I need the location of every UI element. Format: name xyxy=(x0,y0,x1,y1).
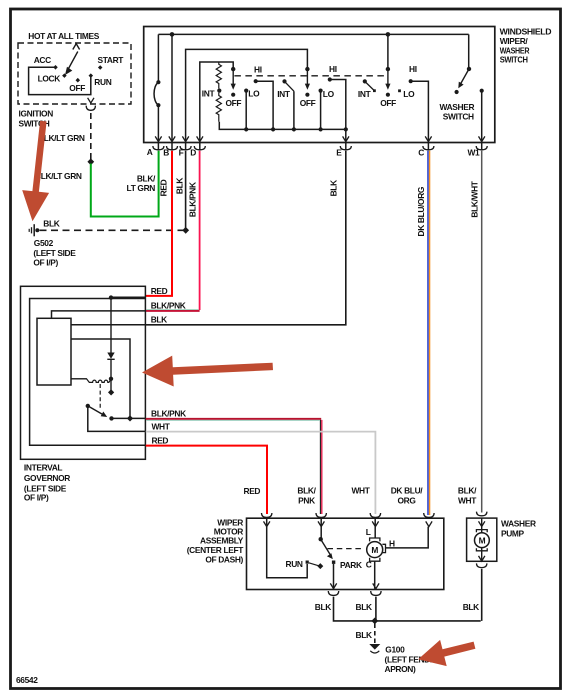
svg-text:BLK: BLK xyxy=(463,602,479,612)
relay upper contact xyxy=(110,379,112,391)
svg-text:G502: G502 xyxy=(34,238,54,248)
gang3 LO contact xyxy=(398,89,401,92)
svg-text:G100: G100 xyxy=(385,645,405,655)
gang3 HI contact and wire to pin C xyxy=(409,79,413,83)
washer pump box xyxy=(467,518,497,561)
svg-text:C: C xyxy=(418,147,424,157)
svg-text:OF I/P): OF I/P) xyxy=(24,493,49,503)
svg-text:BLK/PNK: BLK/PNK xyxy=(151,409,186,419)
pin wire stubs through connectors xyxy=(158,143,481,151)
gang2 INT contact and wire xyxy=(282,79,286,83)
wire component to relay contact xyxy=(71,339,130,418)
svg-text:INTERVAL: INTERVAL xyxy=(24,463,63,473)
relay contact to output xyxy=(109,416,113,420)
svg-text:PNK: PNK xyxy=(298,495,315,505)
gang1 pivot xyxy=(231,67,235,71)
svg-text:RED: RED xyxy=(158,179,168,196)
wire BLK junction to washer pump xyxy=(373,620,481,622)
svg-text:GOVERNOR: GOVERNOR xyxy=(24,473,70,483)
contact START xyxy=(98,65,103,70)
svg-text:OFF: OFF xyxy=(69,83,85,93)
svg-text:LT GRN: LT GRN xyxy=(127,183,156,193)
contact OFF xyxy=(76,78,81,83)
wire pin D to gang1 xyxy=(200,62,233,141)
wire motor H to DK BLU/ORG pin xyxy=(386,527,429,548)
gang3 arm xyxy=(387,70,389,85)
motor top pin arrows xyxy=(264,521,433,526)
wire BLK washer pump to junction xyxy=(481,569,483,621)
junction dot gang3 feed xyxy=(386,32,391,37)
wiper motor box xyxy=(247,518,444,589)
svg-text:DK BLU/ORG: DK BLU/ORG xyxy=(416,187,426,237)
dashed motor link xyxy=(328,548,364,550)
pin arrows at box bottom xyxy=(155,136,485,141)
svg-text:LOCK: LOCK xyxy=(38,74,61,84)
internal bus to pin E xyxy=(219,122,345,130)
svg-text:SWITCH: SWITCH xyxy=(443,112,474,122)
wire DK BLU/ORG pin C to wiper motor xyxy=(427,151,429,515)
wire BLK/PNK inside governor xyxy=(52,311,146,318)
svg-text:HI: HI xyxy=(329,64,337,74)
svg-text:LO: LO xyxy=(403,89,415,99)
diode D1 xyxy=(110,298,112,353)
gang1 resistor lower xyxy=(216,93,221,122)
bus wire B xyxy=(158,33,468,35)
svg-text:BLK/WHT: BLK/WHT xyxy=(470,180,480,217)
wire RED governor to motor xyxy=(146,446,267,514)
wire ACC to RUN xyxy=(29,67,91,94)
washer pump motor M2 xyxy=(475,533,490,548)
gang3 feed xyxy=(387,34,389,67)
washer pump wire bottom xyxy=(481,547,483,561)
svg-text:LO: LO xyxy=(323,89,335,99)
washer pump top arrow xyxy=(479,521,485,526)
svg-text:PARK: PARK xyxy=(340,560,362,570)
wire BLK pin E to governor xyxy=(146,151,346,325)
wire park contact to bottom xyxy=(333,564,335,589)
svg-text:LO: LO xyxy=(248,89,260,99)
svg-text:BLK/: BLK/ xyxy=(297,486,316,496)
wire BLK/PNK pin D to governor xyxy=(199,151,201,310)
svg-text:WHT: WHT xyxy=(458,495,477,505)
ignition switch arm xyxy=(68,52,78,70)
ground G100 symbol xyxy=(369,644,380,650)
svg-text:RED: RED xyxy=(152,436,169,446)
washer switch output contact and wire to pin W1 xyxy=(480,89,484,93)
svg-text:L: L xyxy=(366,527,371,537)
svg-text:RUN: RUN xyxy=(286,559,303,569)
svg-text:OF DASH): OF DASH) xyxy=(205,554,243,564)
park switch pivot xyxy=(319,537,323,541)
washer switch pivot xyxy=(467,67,471,71)
svg-text:A: A xyxy=(147,147,153,157)
svg-text:BLK: BLK xyxy=(315,602,331,612)
wire BLK pin F to G502 xyxy=(185,151,187,231)
washer pump cup top xyxy=(477,512,487,516)
washer pump brackets xyxy=(476,530,487,533)
svg-text:66542: 66542 xyxy=(16,675,38,685)
svg-text:BLK/PNK: BLK/PNK xyxy=(188,182,198,217)
gang2 HI contact and wire to pin E xyxy=(328,77,332,81)
wire dashed BLK to G502 xyxy=(40,229,186,231)
governor outer box xyxy=(21,286,146,459)
wire WHT governor to motor xyxy=(146,432,376,514)
svg-text:WHT: WHT xyxy=(351,486,370,496)
svg-text:ACC: ACC xyxy=(34,55,51,65)
connector cup ignition output xyxy=(86,106,95,111)
ignition switch dashed box xyxy=(18,43,131,104)
svg-text:INT: INT xyxy=(358,89,372,99)
gang2 pivot xyxy=(305,67,309,71)
ground G502 symbol xyxy=(35,228,39,232)
washer pump wire top xyxy=(481,518,483,533)
svg-text:BLK: BLK xyxy=(356,602,372,612)
washer pump cup bottom xyxy=(477,563,487,567)
svg-text:RED: RED xyxy=(244,486,261,496)
svg-text:IGNITION: IGNITION xyxy=(19,108,54,118)
svg-text:W1: W1 xyxy=(468,147,481,157)
gang2 arm xyxy=(306,70,308,85)
svg-text:H: H xyxy=(389,538,395,548)
svg-text:APRON): APRON) xyxy=(385,664,416,674)
svg-text:SWITCH: SWITCH xyxy=(500,55,528,65)
windshield wiper washer switch box xyxy=(144,27,495,143)
gang2 LO contact and wire xyxy=(319,89,323,93)
wire RUN output with arrow xyxy=(88,98,94,103)
red arrow 1 xyxy=(22,121,49,222)
svg-text:M: M xyxy=(479,536,486,546)
junction BLK ground xyxy=(182,227,189,234)
gang1 OFF contact xyxy=(231,93,235,97)
wire RED inside governor xyxy=(111,296,146,298)
park contact xyxy=(332,561,335,564)
wire BLK/PNK pin to park switch pivot xyxy=(320,519,322,539)
governor inner box xyxy=(30,299,146,446)
wire WHT pin to motor L xyxy=(374,519,376,538)
pin connector cups xyxy=(153,146,487,150)
wire dashed BLK/LT GRN from ignition xyxy=(90,113,92,162)
relay switch arm xyxy=(88,406,103,415)
svg-text:BLK: BLK xyxy=(329,180,339,196)
svg-text:INT: INT xyxy=(202,89,216,99)
svg-text:WASHER: WASHER xyxy=(501,519,536,529)
motor bottom connector cups xyxy=(328,591,381,595)
dashed relay link xyxy=(99,384,101,410)
washer switch feed xyxy=(468,34,470,67)
svg-text:ORG: ORG xyxy=(397,495,415,505)
wire pin F to gang2 xyxy=(186,49,308,141)
washer switch arm xyxy=(461,69,470,84)
motor bottom pin arrows xyxy=(330,583,379,588)
svg-text:OFF: OFF xyxy=(380,98,396,108)
governor component box xyxy=(37,318,71,385)
motor top connector cups xyxy=(262,513,435,517)
gang1 resistor upper xyxy=(216,62,221,88)
gang1 arm xyxy=(232,70,234,85)
svg-text:M: M xyxy=(371,545,378,555)
svg-text:START: START xyxy=(98,55,125,65)
wire BLK/WHT pin W1 to washer pump xyxy=(481,151,483,513)
junction G100 xyxy=(371,618,378,625)
gang2 OFF contact xyxy=(305,93,309,97)
wire pin A with breaker xyxy=(157,34,159,82)
svg-text:BLK: BLK xyxy=(174,178,184,194)
junction dot B xyxy=(170,32,175,37)
dashed wire to G100 xyxy=(374,624,376,644)
wire BLK park to junction xyxy=(334,597,374,621)
contact RUN xyxy=(306,561,309,564)
red arrow 2 xyxy=(142,356,273,387)
svg-text:WASHER: WASHER xyxy=(440,102,475,112)
wire BLK C pin down xyxy=(375,597,377,621)
svg-text:RUN: RUN xyxy=(94,77,111,87)
gang1 HI contact and wire xyxy=(254,79,258,83)
svg-text:HOT AT ALL TIMES: HOT AT ALL TIMES xyxy=(28,31,99,41)
gang3 pivot xyxy=(386,67,390,71)
motor M1 circle xyxy=(367,542,383,558)
svg-text:BLK: BLK xyxy=(356,630,372,640)
contact ACC xyxy=(53,65,58,70)
svg-text:OFF: OFF xyxy=(226,98,242,108)
svg-text:WINDSHIELD: WINDSHIELD xyxy=(500,27,552,37)
wire RED pin to RUN contact xyxy=(267,519,308,578)
svg-text:OF I/P): OF I/P) xyxy=(33,257,58,267)
wire BLK/LT GRN green to pin A xyxy=(91,151,159,217)
park switch arm xyxy=(321,539,331,555)
junction ignition green wire xyxy=(87,158,94,165)
svg-text:OFF: OFF xyxy=(300,98,316,108)
svg-text:B: B xyxy=(163,147,169,157)
svg-text:BLK/LT GRN: BLK/LT GRN xyxy=(35,171,82,181)
svg-text:HI: HI xyxy=(254,64,262,74)
contact LOCK xyxy=(62,73,67,78)
ignition feed terminal arrow xyxy=(73,44,80,50)
gang1 INT contact xyxy=(217,89,221,93)
red arrow 3 xyxy=(418,640,475,666)
svg-text:D: D xyxy=(190,147,196,157)
svg-text:PUMP: PUMP xyxy=(501,529,525,539)
svg-text:BLK/PNK: BLK/PNK xyxy=(151,301,186,311)
wire pin B vertical xyxy=(171,34,173,141)
svg-text:WHT: WHT xyxy=(152,422,171,432)
svg-text:INT: INT xyxy=(277,89,291,99)
run rest contact xyxy=(309,563,319,566)
svg-text:DK BLU/: DK BLU/ xyxy=(391,486,424,496)
gang1 LO contact and wire xyxy=(244,89,248,93)
svg-text:HI: HI xyxy=(409,64,417,74)
relay coil xyxy=(71,378,87,380)
wire BLK inside governor xyxy=(71,324,146,326)
contact RUN xyxy=(89,73,94,78)
washer switch rest contact xyxy=(455,90,459,94)
gang3 INT contact xyxy=(363,79,367,83)
relay switch pivot xyxy=(86,404,90,408)
wire BLK/PNK governor to motor xyxy=(146,418,321,420)
wire motor C to bottom xyxy=(374,561,376,589)
svg-text:E: E xyxy=(336,147,342,157)
svg-text:RED: RED xyxy=(151,286,168,296)
svg-text:BLK/: BLK/ xyxy=(458,486,477,496)
svg-text:C: C xyxy=(366,559,372,569)
gang3 OFF contact xyxy=(386,93,390,97)
svg-text:BLK: BLK xyxy=(151,314,167,324)
svg-text:BLK: BLK xyxy=(43,218,59,228)
dashed gang link xyxy=(234,75,388,77)
motor tabs xyxy=(370,538,380,541)
wire pivot to WHT output xyxy=(88,406,146,432)
wire RED pin B to governor xyxy=(146,151,172,296)
svg-text:F: F xyxy=(179,147,184,157)
